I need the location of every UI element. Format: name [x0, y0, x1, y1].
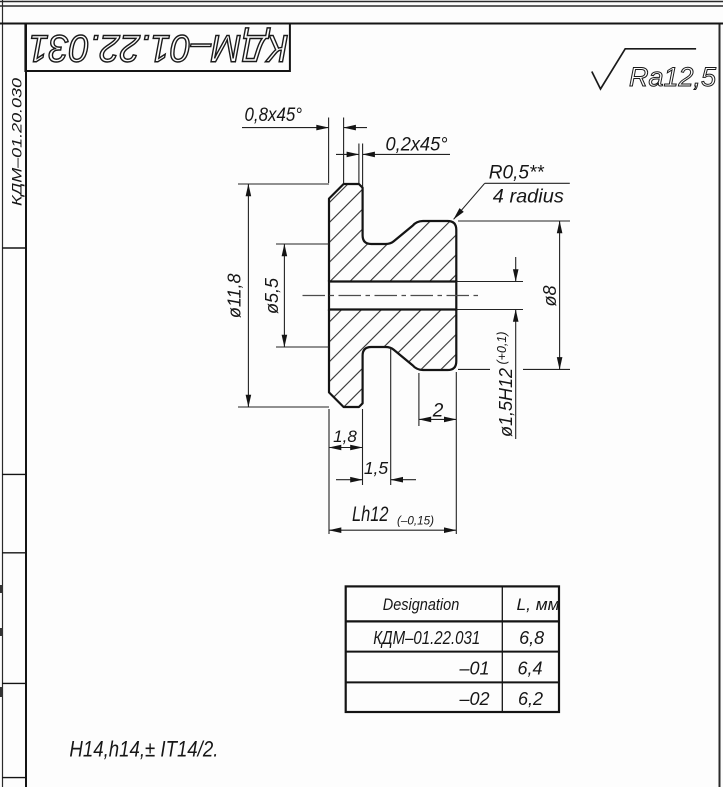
svg-text:КДМ–01.20.030: КДМ–01.20.030: [9, 78, 25, 206]
svg-text:КДМ–01.22.031: КДМ–01.22.031: [29, 27, 289, 69]
svg-text:–02: –02: [458, 689, 489, 709]
svg-text:–01: –01: [458, 659, 489, 679]
svg-text:КДМ–01.22.031: КДМ–01.22.031: [373, 628, 480, 648]
svg-text:0,2x45°: 0,2x45°: [386, 135, 448, 156]
svg-text:6,4: 6,4: [517, 659, 542, 679]
svg-text:2: 2: [432, 401, 444, 422]
svg-text:6,8: 6,8: [519, 628, 544, 648]
svg-text:Ra12,5: Ra12,5: [629, 62, 717, 92]
svg-text:1,8: 1,8: [333, 427, 357, 446]
svg-text:1,5: 1,5: [364, 458, 389, 478]
svg-text:Lh12: Lh12: [352, 503, 389, 526]
svg-text:(–0,15): (–0,15): [397, 514, 434, 528]
svg-text:ø5,5: ø5,5: [262, 277, 282, 314]
svg-text:ø8: ø8: [540, 285, 560, 306]
svg-text:Designation: Designation: [383, 595, 460, 614]
svg-text:ø11,8: ø11,8: [225, 273, 245, 318]
svg-text:0,8x45°: 0,8x45°: [245, 105, 303, 126]
svg-text:4 radius: 4 radius: [493, 186, 564, 208]
svg-text:H14,h14,± IT14/2.: H14,h14,± IT14/2.: [69, 737, 218, 762]
svg-text:6,2: 6,2: [518, 689, 543, 709]
svg-text:L, мм: L, мм: [517, 595, 560, 614]
svg-text:R0,5**: R0,5**: [489, 163, 545, 184]
